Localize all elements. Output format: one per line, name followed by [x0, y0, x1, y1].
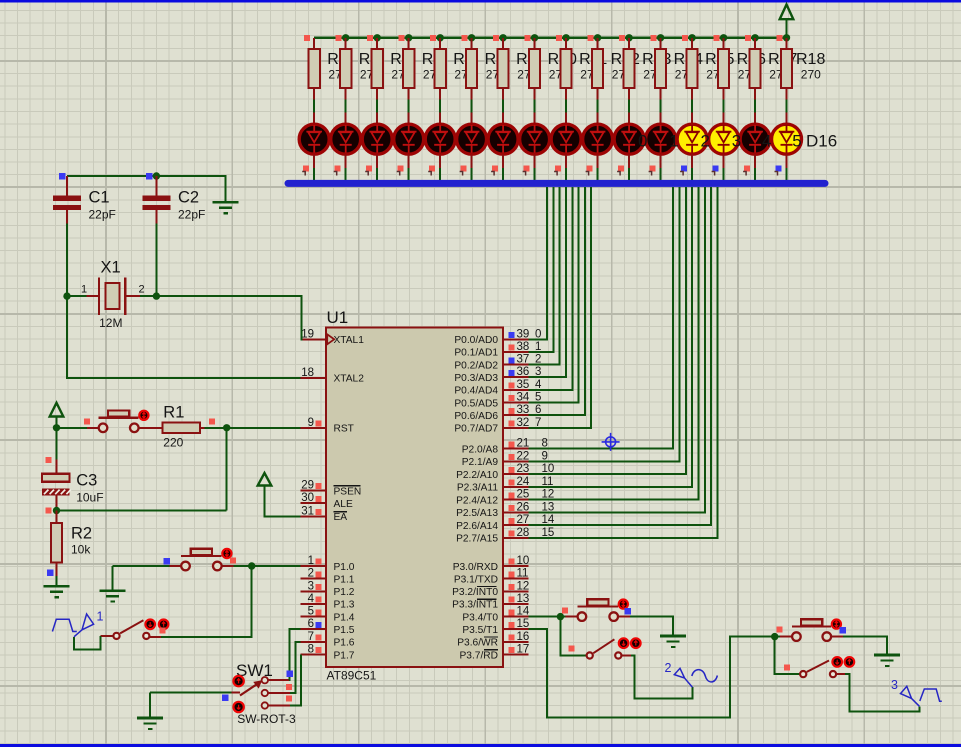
pin marker D2 cathode: [335, 166, 341, 172]
pin 35 P0.4/AD4: [503, 389, 529, 391]
LED D13: [691, 113, 693, 123]
node rail junction 8: [562, 34, 569, 41]
pin 29 PSEN: [300, 490, 326, 492]
wire D8 to bus: [534, 155, 536, 169]
wire RST junction down: [226, 428, 228, 511]
svg-text:P2.0/A8: P2.0/A8: [462, 444, 499, 455]
wire R11 to D9: [565, 100, 567, 113]
resistor R1: [147, 427, 163, 429]
pin marker resistor R8 top: [461, 35, 467, 41]
svg-text:P1.4: P1.4: [334, 612, 355, 623]
svg-text:P0.0/AD0: P0.0/AD0: [454, 335, 498, 346]
resistor R2: [56, 511, 58, 524]
svg-text:26: 26: [517, 501, 530, 513]
wire P3.4 down to switch2: [560, 617, 586, 656]
wire SW1 contact3 to P1.7: [268, 705, 290, 707]
svg-text:22pF: 22pF: [89, 208, 116, 222]
svg-text:P3.4/T0: P3.4/T0: [462, 612, 498, 623]
svg-text:21: 21: [517, 438, 530, 450]
pin marker resistor R9 top: [493, 35, 499, 41]
svg-text:10: 10: [517, 555, 530, 567]
wire D4 to bus: [408, 155, 410, 169]
svg-text:14: 14: [517, 606, 530, 618]
svg-text:P1.7: P1.7: [334, 650, 355, 661]
pin 24 P2.3/A11: [503, 486, 529, 488]
wire VCC down to C3: [56, 428, 58, 460]
wire P1.0 down to switch: [161, 566, 252, 637]
node rail junction 9: [594, 34, 601, 41]
wire R16 to D14: [723, 100, 725, 113]
svg-text:19: 19: [301, 328, 314, 340]
push button P3.4: [566, 616, 582, 618]
pin marker resistor R16 top: [713, 35, 719, 41]
svg-text:18: 18: [301, 367, 314, 379]
svg-text:34: 34: [517, 392, 530, 404]
svg-text:13: 13: [517, 593, 530, 605]
pin marker resistor R11 top: [556, 35, 562, 41]
LED D9: [565, 113, 567, 123]
wire R18 to D16: [786, 100, 788, 113]
pin 37 P0.2/AD2: [503, 364, 529, 366]
pin marker D8 cathode: [524, 166, 530, 172]
svg-text:P2.5/A13: P2.5/A13: [456, 508, 498, 519]
svg-text:D16: D16: [806, 132, 837, 151]
wire bus to P2.2: [529, 187, 686, 474]
clock source 1: [52, 614, 93, 637]
IC U1 AT89C51 body: [326, 328, 503, 668]
LED D4: [408, 113, 410, 123]
wire SW1 common to ground: [232, 691, 241, 693]
pin 26 P2.5/A13: [503, 511, 529, 513]
wire X1.1 to XTAL2: [67, 296, 300, 378]
pin marker D13 cathode: [681, 166, 687, 172]
node rail junction 10: [625, 34, 632, 41]
svg-text:33: 33: [517, 404, 530, 416]
wire D7 to bus: [502, 155, 504, 169]
pin 22 P2.1/A9: [503, 460, 529, 462]
wire top VCC rail: [314, 37, 786, 39]
svg-text:P3.6/WR: P3.6/WR: [457, 638, 498, 649]
node rail junction 1: [342, 34, 349, 41]
svg-text:P0.6/AD6: P0.6/AD6: [454, 411, 498, 422]
svg-text:P0.3/AD3: P0.3/AD3: [454, 373, 498, 384]
pin marker button RST left: [84, 419, 90, 425]
svg-text:X1: X1: [101, 259, 121, 277]
svg-text:2: 2: [139, 284, 145, 296]
wire bus to P2.3: [529, 187, 693, 487]
node rail junction 3: [405, 34, 412, 41]
wire R12 to D10: [597, 100, 599, 113]
node rail junction 7: [531, 34, 538, 41]
pin marker D7 cathode: [492, 166, 498, 172]
pin 14 P3.4/T0: [503, 616, 529, 618]
resistor R4: [345, 38, 347, 49]
node RST rail junction: [53, 424, 60, 431]
svg-text:P2.1/A9: P2.1/A9: [462, 457, 499, 468]
svg-text:XTAL2: XTAL2: [334, 374, 365, 385]
pin 7 P1.6: [300, 641, 326, 643]
pin marker D11 cathode: [618, 166, 624, 172]
wire D14 to bus: [723, 155, 725, 169]
pin 32 P0.7/AD7: [503, 427, 529, 429]
ground button P3.5: [874, 654, 900, 657]
wire bus to P0.0: [529, 187, 547, 339]
wire D15 to bus: [754, 155, 756, 169]
svg-text:8: 8: [308, 644, 314, 656]
pin marker resistor R4 top: [336, 35, 342, 41]
svg-text:28: 28: [517, 527, 530, 539]
svg-text:3: 3: [308, 580, 314, 592]
node rail junction 13: [720, 34, 727, 41]
node rail junction 5: [468, 34, 475, 41]
svg-text:37: 37: [517, 354, 530, 366]
svg-text:R2: R2: [71, 525, 92, 543]
pin marker resistor R6 top: [399, 35, 405, 41]
pin marker resistor R3 top: [304, 35, 310, 41]
pin marker D4 cathode: [398, 166, 404, 172]
svg-text:P3.1/TXD: P3.1/TXD: [454, 574, 498, 585]
resistor R15: [691, 38, 693, 49]
node rail junction 12: [688, 34, 695, 41]
wire R9 to D7: [502, 100, 504, 113]
pin marker R1 right: [209, 419, 215, 425]
svg-text:EA: EA: [334, 512, 348, 523]
rotary switch SW1: [262, 677, 268, 683]
power VCC arrow RST: [50, 403, 64, 417]
svg-text:30: 30: [301, 492, 314, 504]
wire bus to P2.7: [529, 187, 718, 538]
svg-text:12M: 12M: [99, 316, 122, 330]
pin 17 P3.7/RD: [503, 654, 529, 656]
wire P3.5 net: [529, 629, 772, 717]
svg-text:P1.3: P1.3: [334, 600, 355, 611]
svg-text:P0.1/AD1: P0.1/AD1: [454, 348, 498, 359]
svg-text:P3.2/INT0: P3.2/INT0: [452, 587, 498, 598]
wire P3.5 down to switch3: [775, 637, 800, 675]
svg-text:P0.2/AD2: P0.2/AD2: [454, 360, 498, 371]
pin 25 P2.4/A12: [503, 499, 529, 501]
resistor R13: [628, 38, 630, 49]
pin 5 P1.4: [300, 616, 326, 618]
resistor R12: [597, 38, 599, 49]
svg-text:17: 17: [517, 644, 530, 656]
wire R8 to D6: [471, 100, 473, 113]
svg-text:2: 2: [308, 568, 314, 580]
resistor R17: [754, 38, 756, 49]
svg-text:P3.5/T1: P3.5/T1: [462, 625, 498, 636]
pin 38 P0.1/AD1: [503, 351, 529, 353]
power VCC arrow top: [785, 20, 787, 38]
svg-text:P1.1: P1.1: [334, 574, 355, 585]
push button RST: [87, 427, 103, 429]
svg-text:P2.4/A12: P2.4/A12: [456, 495, 498, 506]
pin 36 P0.3/AD3: [503, 376, 529, 378]
svg-text:270: 270: [801, 68, 821, 82]
capacitor C1: [66, 176, 68, 196]
svg-text:7: 7: [308, 631, 314, 643]
wire D5 to bus: [439, 155, 441, 169]
svg-text:29: 29: [301, 480, 314, 492]
resistor R8: [471, 38, 473, 49]
svg-text:38: 38: [517, 341, 530, 353]
svg-text:22: 22: [517, 450, 530, 462]
switch SPDT 1: [149, 636, 161, 638]
pin 15 P3.5/T1: [503, 628, 529, 630]
wire R10 to D8: [534, 100, 536, 113]
pin 2 P1.1: [300, 578, 326, 580]
capacitor C3 electrolytic: [56, 460, 58, 475]
svg-text:15: 15: [517, 618, 530, 630]
wire D13 to bus: [691, 155, 693, 169]
svg-text:9: 9: [308, 417, 314, 429]
wire switch1 to clock1: [101, 635, 114, 637]
pin 34 P0.5/AD5: [503, 402, 529, 404]
svg-text:0: 0: [638, 132, 647, 151]
pin marker resistor R17 top: [745, 35, 751, 41]
wire D11 to bus: [628, 155, 630, 169]
pin marker button P1.0 right: [230, 557, 236, 563]
svg-text:C3: C3: [76, 472, 97, 490]
origin crosshair marker: [602, 433, 620, 451]
resistor R5: [376, 38, 378, 49]
pin 33 P0.6/AD6: [503, 414, 529, 416]
svg-text:31: 31: [301, 505, 314, 517]
pin marker C1 top: [59, 173, 66, 180]
pin marker C3 bottom: [46, 508, 52, 514]
node C2 junction: [153, 172, 160, 179]
wire C1 to X1.1: [66, 224, 68, 297]
svg-text:P3.3/INT1: P3.3/INT1: [452, 600, 498, 611]
pin marker C2 top: [146, 173, 153, 180]
wire bus to P0.6: [529, 187, 585, 415]
wire R4 to D2: [345, 100, 347, 113]
svg-text:35: 35: [517, 379, 530, 391]
svg-text:C2: C2: [178, 189, 199, 207]
LED D5: [439, 113, 441, 123]
LED D1: [313, 113, 315, 123]
svg-text:25: 25: [517, 489, 530, 501]
pin marker resistor R12 top: [587, 35, 593, 41]
wire bus to P2.5: [529, 187, 705, 513]
svg-text:6: 6: [308, 618, 314, 630]
wire R1 to RST pin: [205, 427, 301, 429]
resistor R9: [502, 38, 504, 49]
resistor R14: [660, 38, 662, 49]
pin 31 EA: [300, 515, 326, 517]
clock source 2: [674, 668, 717, 687]
svg-text:P2.3/A11: P2.3/A11: [457, 483, 498, 494]
svg-text:P0.5/AD5: P0.5/AD5: [454, 398, 498, 409]
pin 23 P2.2/A10: [503, 473, 529, 475]
svg-text:22pF: 22pF: [178, 208, 205, 222]
LED D8: [534, 113, 536, 123]
svg-text:36: 36: [517, 366, 530, 378]
wire bus to P2.4: [529, 187, 699, 500]
pin marker SW1 common: [222, 695, 229, 702]
svg-text:5: 5: [792, 132, 801, 151]
pin 8 P1.7: [300, 654, 326, 656]
svg-text:R1: R1: [163, 404, 184, 422]
pin marker button P3.4: [562, 608, 568, 614]
resistor R11: [565, 38, 567, 49]
svg-text:1: 1: [97, 609, 104, 623]
pin marker resistor R18 top: [776, 35, 782, 41]
resistor R10: [534, 38, 536, 49]
pin 19 XTAL1: [300, 338, 326, 340]
svg-text:2: 2: [701, 132, 710, 151]
pin marker resistor R5 top: [367, 35, 373, 41]
pin 1 P1.0: [300, 565, 326, 567]
node X1 pin1 junction: [63, 292, 70, 299]
pin marker SW1 contact1: [286, 671, 293, 678]
node P3.4 junction: [557, 613, 564, 620]
svg-text:P2.7/A15: P2.7/A15: [456, 534, 498, 545]
svg-text:P2.2/A10: P2.2/A10: [456, 470, 498, 481]
LED D12: [660, 113, 662, 123]
LED D6: [471, 113, 473, 123]
svg-text:R18: R18: [796, 51, 825, 68]
switch SPDT 2: [587, 652, 593, 658]
svg-text:11: 11: [517, 568, 529, 580]
wire D3 to bus: [376, 155, 378, 169]
svg-text:2: 2: [665, 661, 672, 675]
resistor R16: [723, 38, 725, 49]
svg-text:3: 3: [891, 678, 898, 692]
wire bus to P0.7: [529, 187, 592, 428]
pin marker SW1 contact3: [286, 696, 292, 702]
wire bus to P0.3: [529, 187, 566, 377]
wire D2 to bus: [345, 155, 347, 169]
bus LED common: [288, 180, 825, 187]
pin marker resistor R7 top: [430, 35, 436, 41]
wire C1 C2 ground rail: [67, 176, 226, 202]
pin marker resistor R15 top: [682, 35, 688, 41]
ground button P3.4: [660, 635, 686, 638]
pin marker D1 cathode: [303, 166, 309, 172]
svg-text:P1.6: P1.6: [334, 638, 355, 649]
node P1.0 junction: [248, 562, 255, 569]
pin marker button P1.0 left: [164, 558, 171, 565]
wire P1.0 net: [221, 565, 301, 567]
LED D10: [597, 113, 599, 123]
pin marker resistor R14 top: [650, 35, 656, 41]
pin marker switch1: [160, 628, 166, 634]
power VCC arrow EA: [258, 473, 272, 486]
svg-text:220: 220: [163, 436, 183, 450]
LED D11: [628, 113, 630, 123]
wire R15 to D13: [691, 100, 693, 113]
wire D10 to bus: [597, 155, 599, 169]
wire SW1 contact2 to P1.6: [268, 692, 290, 694]
svg-text:P0.4/AD4: P0.4/AD4: [454, 386, 498, 397]
pin marker D16 cathode: [776, 166, 782, 172]
svg-text:27: 27: [517, 514, 530, 526]
pin 30 ALE: [300, 502, 326, 504]
svg-text:1: 1: [308, 555, 314, 567]
resistor R7: [439, 38, 441, 49]
clock source 3: [901, 686, 942, 706]
svg-text:24: 24: [517, 476, 530, 488]
svg-text:ALE: ALE: [334, 499, 353, 510]
wire C3 R2 horizontal: [57, 510, 227, 512]
wire R14 to D12: [660, 100, 662, 113]
wire R3 to D1: [313, 100, 315, 113]
svg-text:AT89C51: AT89C51: [327, 669, 377, 683]
wire bus to P2.6: [529, 187, 712, 525]
svg-text:16: 16: [517, 631, 530, 643]
pin 10 P3.0/RXD: [503, 565, 529, 567]
wire R17 to D15: [754, 100, 756, 113]
svg-text:C1: C1: [89, 189, 110, 207]
capacitor C2: [155, 176, 157, 196]
resistor R18: [786, 38, 788, 49]
wire D9 to bus: [565, 155, 567, 169]
pin XTAL1 clock chevron: [327, 334, 334, 344]
svg-text:1: 1: [669, 132, 678, 151]
pin marker switch2: [569, 645, 575, 651]
node rail junction 4: [437, 34, 444, 41]
svg-text:23: 23: [517, 463, 530, 475]
wire bus to P0.1: [529, 187, 554, 352]
pin marker D14 cathode: [713, 166, 719, 172]
wire R13 to D11: [628, 100, 630, 113]
ground after C2: [213, 201, 239, 204]
wire VCC to EA: [265, 486, 301, 517]
svg-text:1: 1: [81, 284, 87, 296]
node C3 R2 junction: [53, 507, 60, 514]
svg-text:3: 3: [732, 132, 741, 151]
pin marker C3 top: [46, 457, 52, 463]
pin marker D10 cathode: [587, 166, 593, 172]
pin marker switch3: [784, 664, 790, 670]
switch SPDT 3: [800, 671, 806, 677]
wire R2 to ground: [56, 576, 58, 586]
wire X1.2 to XTAL1: [140, 296, 302, 339]
LED D16: [786, 113, 788, 123]
pin marker R2 bottom: [47, 570, 54, 577]
svg-text:10k: 10k: [71, 543, 91, 557]
svg-text:32: 32: [517, 417, 530, 429]
svg-text:12: 12: [517, 580, 530, 592]
wire R6 to D4: [408, 100, 410, 113]
pin marker button P3.5: [777, 626, 783, 632]
pin 4 P1.3: [300, 603, 326, 605]
svg-text:P1.5: P1.5: [334, 625, 355, 636]
pin marker D12 cathode: [650, 166, 656, 172]
wire D1 to bus: [313, 155, 315, 169]
svg-text:4: 4: [308, 593, 315, 605]
wire bus to P0.4: [529, 187, 573, 390]
node rail junction 15: [783, 34, 790, 41]
pin marker SW1 contact2: [286, 684, 292, 690]
svg-text:10uF: 10uF: [76, 491, 103, 505]
svg-text:P3.0/RXD: P3.0/RXD: [453, 562, 498, 573]
svg-text:P3.7/RD: P3.7/RD: [459, 650, 498, 661]
svg-text:P1.0: P1.0: [334, 562, 355, 573]
wire D16 to bus: [786, 155, 788, 169]
ground SW1: [137, 717, 163, 720]
node RST junction: [223, 424, 230, 431]
pin marker D6 cathode: [461, 166, 467, 172]
pin marker D3 cathode: [366, 166, 372, 172]
resistor R6: [408, 38, 410, 49]
pin 27 P2.6/A14: [503, 524, 529, 526]
wire button P3.5 to ground: [843, 637, 887, 654]
svg-text:P0.7/AD7: P0.7/AD7: [454, 424, 498, 435]
crystal X1: [67, 295, 87, 297]
pin 28 P2.7/A15: [503, 537, 529, 539]
svg-text:39: 39: [517, 328, 530, 340]
